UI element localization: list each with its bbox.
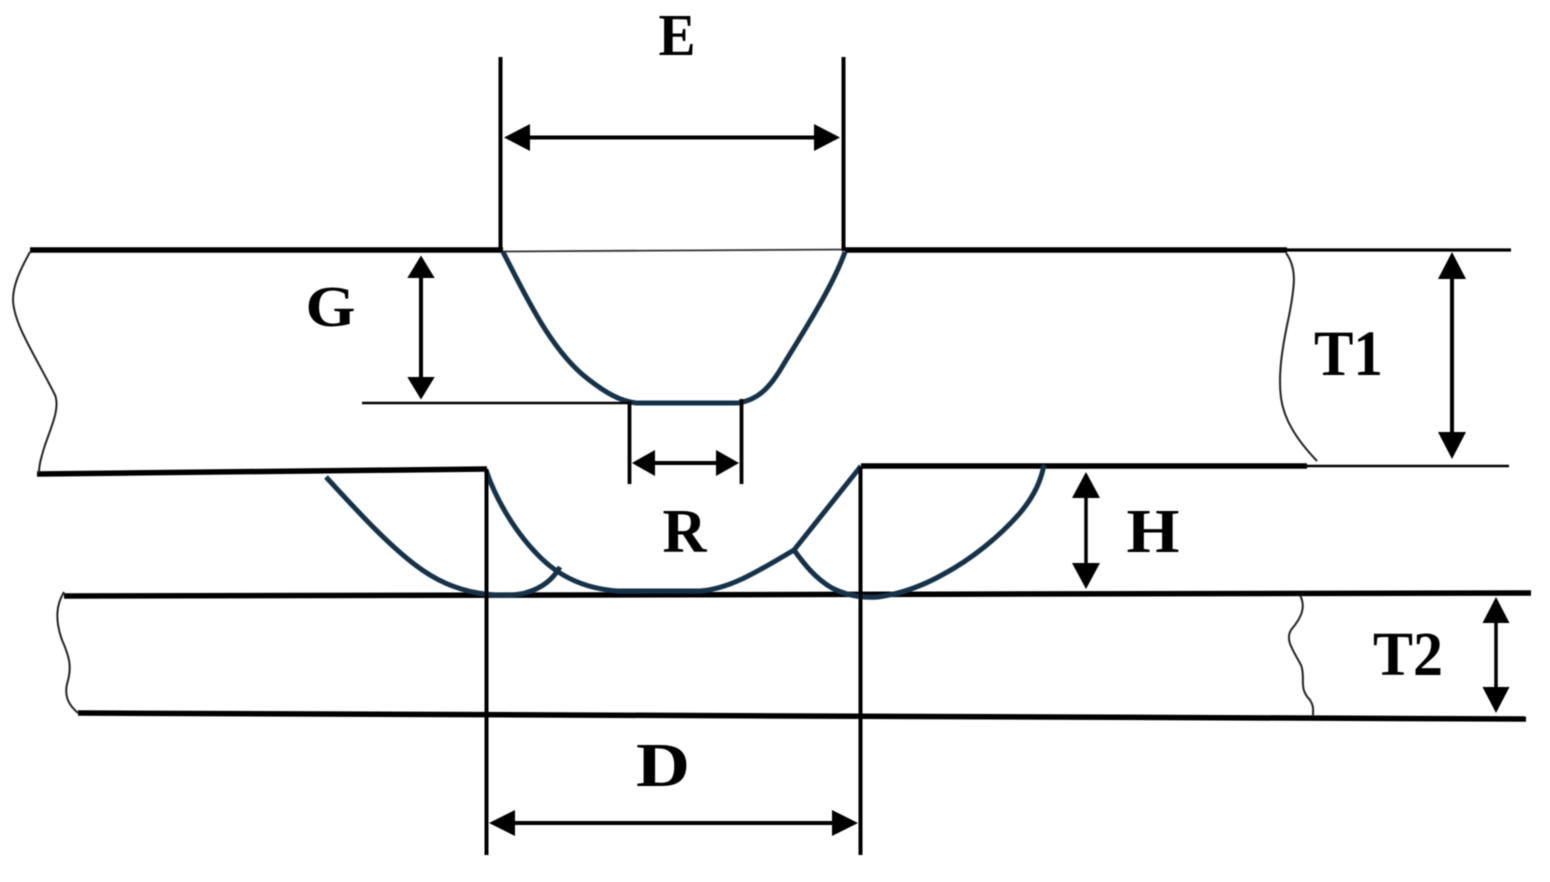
dimension D arrow line (507, 821, 840, 825)
dimension D left arrowhead (489, 810, 515, 836)
dimension T2 arrow line (1494, 610, 1498, 700)
dimension E right arrowhead (814, 124, 840, 151)
left weld fillet curve (326, 477, 560, 595)
svg-text:G: G (306, 274, 356, 339)
middle weld nugget U curve (486, 466, 861, 591)
top plate T1 bottom surface left segment (thick) (37, 469, 487, 474)
svg-text:D: D (636, 732, 690, 800)
dimension E right extension line (842, 57, 846, 251)
dimension E arrow line (522, 136, 824, 140)
dimension E left extension line (499, 57, 503, 250)
svg-text:E: E (659, 2, 696, 68)
dimension E left arrowhead (504, 124, 530, 151)
bottom plate T2 top surface (thick) (64, 593, 1531, 596)
bottom plate left break line (wavy) (57, 592, 78, 713)
top plate right break line (wavy) (1280, 253, 1317, 461)
dimension T2 top arrowhead (1483, 597, 1510, 623)
dimension T2 bottom arrowhead (1483, 687, 1510, 713)
dimension G top arrowhead (407, 256, 434, 279)
svg-text:H: H (1127, 498, 1180, 566)
dimension R left tick (628, 401, 632, 484)
dimension H bottom arrowhead (1072, 563, 1100, 589)
dimension R arrow line (650, 461, 722, 465)
svg-text:T2: T2 (1373, 621, 1443, 689)
dimension R right arrowhead (716, 450, 739, 476)
faint line across groove mouth (503, 250, 845, 252)
dimension D left vertical line (485, 469, 489, 855)
dimension D right arrowhead (832, 810, 858, 836)
top plate T1 bottom surface continuation beyond break (thin) (1307, 465, 1509, 468)
top plate T1 top surface continuation beyond break (thin) (1287, 248, 1511, 251)
svg-text:T1: T1 (1314, 318, 1383, 390)
bottom plate T2 bottom surface (thick) (78, 713, 1526, 719)
svg-text:R: R (663, 498, 708, 566)
dimension H top arrowhead (1072, 472, 1100, 498)
dimension G arrow line (419, 268, 423, 390)
dimension R left arrowhead (632, 450, 655, 476)
top plate T1 top surface right segment (thick) (845, 247, 1287, 253)
dimension T1 arrow line (1450, 265, 1454, 446)
top plate T1 top surface left segment (thick) (30, 247, 503, 253)
groove-depth reference line (362, 402, 632, 405)
dimension T1 bottom arrowhead (1438, 432, 1466, 459)
weld groove curve (top concavity) (503, 252, 845, 403)
dimension T1 top arrowhead (1438, 252, 1466, 279)
right weld boundary curve (794, 465, 1044, 597)
dimension H arrow line (1084, 485, 1088, 576)
dimension G bottom arrowhead (407, 377, 434, 400)
top plate T1 bottom surface right segment (thick) (861, 463, 1307, 469)
bottom plate right break line (wavy) (1289, 595, 1313, 716)
top plate left break line (wavy) (13, 252, 57, 473)
dimension D right vertical line (859, 467, 863, 855)
dimension R right tick (740, 399, 744, 484)
